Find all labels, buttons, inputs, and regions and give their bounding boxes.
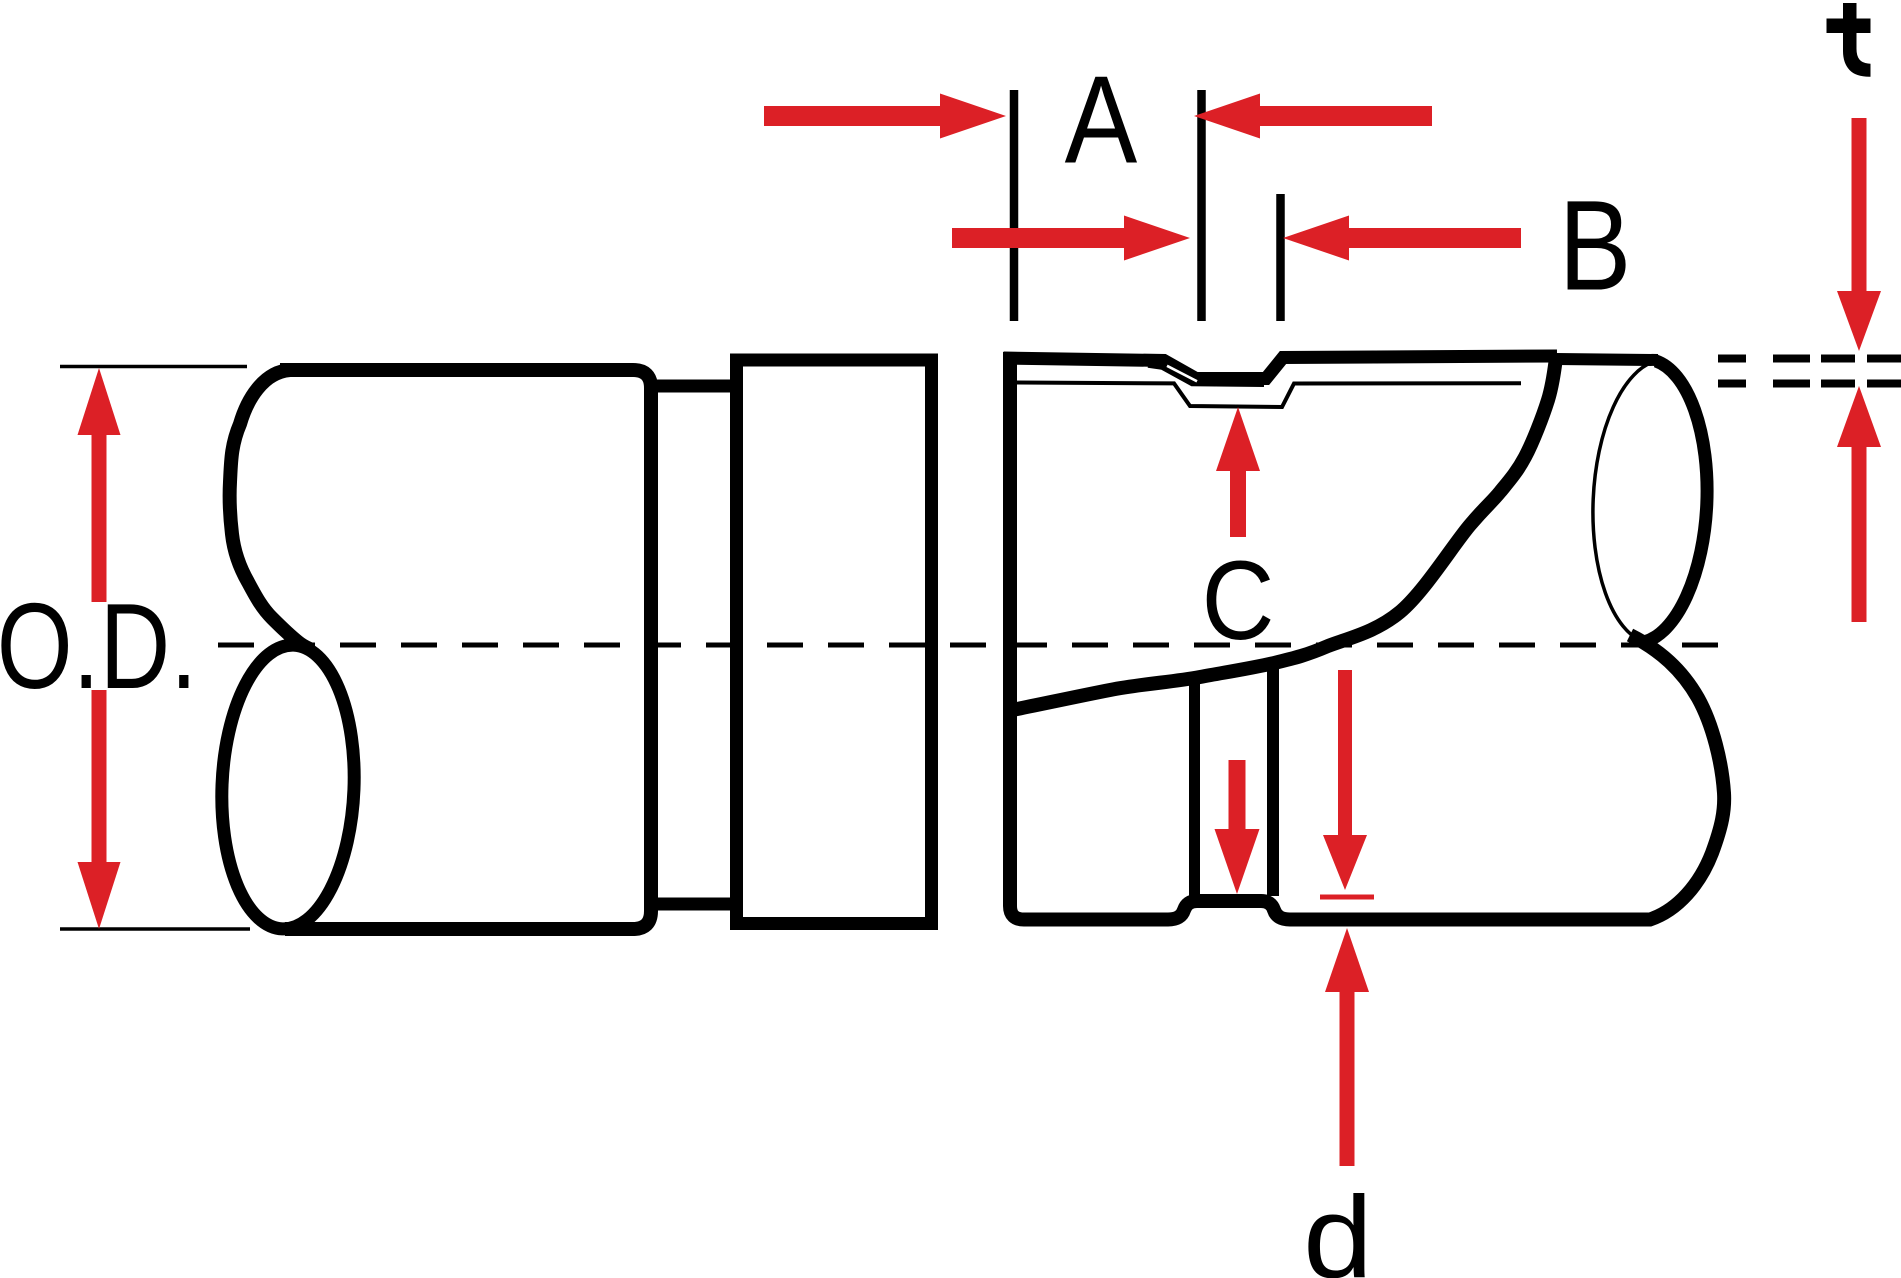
bell inner lip line (groove underside) bbox=[1148, 366, 1264, 385]
centerline (dashed axis) bbox=[218, 643, 1735, 648]
dimension extension line 1 (A left) bbox=[1010, 90, 1019, 321]
O.D. arrow down head bbox=[78, 862, 121, 929]
bell inner wall thin line bbox=[1017, 383, 1521, 408]
label t bbox=[1827, 3, 1871, 77]
cutaway curve bbox=[1012, 358, 1556, 710]
svg-text:A: A bbox=[1065, 50, 1138, 189]
collar top line bbox=[651, 380, 732, 393]
left pipe end ellipse bbox=[216, 642, 359, 931]
white separation sliver on groove left slope bbox=[1167, 366, 1197, 382]
t wall-thickness dashed line bottom bbox=[1718, 380, 1901, 388]
C arrow (up, at groove) bbox=[1216, 407, 1260, 471]
d arrow (up from label) bbox=[1325, 928, 1369, 992]
socket depth vertical line V1 bbox=[1189, 680, 1200, 896]
right pipe top edge bbox=[1556, 359, 1658, 360]
gap arrow (down, between V1 and V2) bbox=[1229, 760, 1246, 830]
B dimension right-pointing arrow bbox=[952, 228, 1124, 248]
bell outer top line with gasket groove bbox=[1004, 356, 1558, 379]
svg-text:O.D.: O.D. bbox=[0, 579, 197, 715]
d red tick line bbox=[1320, 895, 1374, 900]
t wall-thickness dashed line top bbox=[1718, 355, 1901, 363]
t arrow (down) bbox=[1852, 118, 1867, 294]
red dimension arrows bbox=[78, 94, 1882, 1167]
dimension extension line 2 (A right / B left) bbox=[1197, 90, 1206, 321]
O.D. arrow shaft upper bbox=[92, 430, 107, 602]
O.D. bottom tick line bbox=[60, 927, 250, 931]
right pipe end ellipse thin left arc bbox=[1593, 361, 1656, 642]
svg-text:d: d bbox=[1303, 1172, 1373, 1278]
d inner-wall arrow (down) bbox=[1338, 670, 1352, 836]
left pipe body bbox=[280, 370, 651, 929]
label O.D. bbox=[0, 579, 197, 715]
coupling rectangle bbox=[737, 360, 932, 924]
t arrow (up) bbox=[1837, 386, 1881, 447]
bell outline (left edge, bottom edge with step, right pipe bottom) bbox=[1010, 352, 1724, 920]
O.D. top tick line bbox=[60, 365, 247, 369]
A dimension left-pointing arrow bbox=[1194, 94, 1260, 139]
svg-text:B: B bbox=[1559, 174, 1632, 317]
dimension extension line 3 (B right) bbox=[1276, 194, 1285, 321]
right pipe end ellipse thick right arc bbox=[1644, 361, 1707, 642]
O.D. arrow up head bbox=[78, 368, 121, 435]
left pipe back edge curve bbox=[230, 370, 312, 650]
A dimension right-pointing arrow bbox=[764, 106, 944, 126]
B dimension left-pointing arrow bbox=[1283, 216, 1349, 261]
collar bottom line bbox=[651, 898, 732, 911]
inserted pipe end vertical line V2 bbox=[1267, 664, 1279, 896]
O.D. arrow shaft lower bbox=[92, 690, 107, 870]
svg-text:C: C bbox=[1202, 538, 1275, 663]
